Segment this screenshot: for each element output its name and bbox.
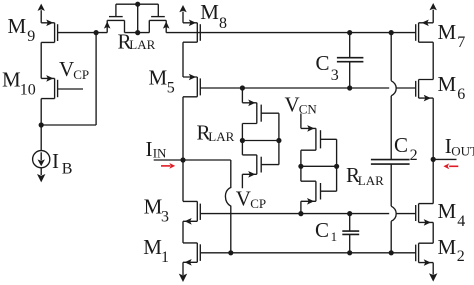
svg-text:B: B <box>62 161 73 178</box>
label C2 <box>394 133 418 164</box>
svg-text:C: C <box>316 51 330 75</box>
transistor M7 (PMOS, mirrored) <box>416 20 434 43</box>
pseudo-resistor RLAR mid-right, lower transistor <box>301 166 337 213</box>
label RLAR (top) <box>118 30 156 54</box>
pseudo-resistor RLAR top, right transistor <box>149 4 169 32</box>
node IIN line on row D <box>228 250 233 255</box>
capacitor C3 <box>337 33 364 88</box>
label VCP (gate of M10) <box>59 57 89 82</box>
capacitor C2 <box>371 33 410 253</box>
svg-text:C: C <box>315 218 329 242</box>
svg-text:9: 9 <box>27 28 35 45</box>
svg-text:M: M <box>438 199 457 223</box>
svg-text:OUT: OUT <box>451 143 474 158</box>
svg-text:M: M <box>8 14 27 38</box>
label M9 <box>8 14 36 45</box>
power arrow (VDD) for M9 <box>38 4 45 23</box>
node: M9 gate / RLAR left <box>94 30 99 35</box>
wire gate bus row C (M3 gate to M4 gate) <box>200 213 415 215</box>
svg-text:LAR: LAR <box>129 37 155 52</box>
svg-text:V: V <box>59 57 74 81</box>
label C1 <box>315 218 337 244</box>
node RLAR mid-left center right <box>276 138 281 143</box>
svg-text:I: I <box>52 149 59 173</box>
node C2 bottom on row D <box>389 250 394 255</box>
wire feedback node to M9 gate node <box>41 33 96 125</box>
label M7 <box>438 20 466 51</box>
wire RLAR mid-left center link <box>242 140 279 142</box>
svg-text:M: M <box>200 0 219 24</box>
transistor M10 (PMOS) <box>41 75 83 99</box>
wire hop of C2 line over row C <box>391 206 396 221</box>
node RLAR mid-right center right <box>334 164 339 169</box>
svg-text:M: M <box>438 72 457 96</box>
label RLAR (mid-left) <box>197 120 235 144</box>
wire gate bus row D (M1 gate to M2 gate) <box>200 252 415 254</box>
wire gate bus row B (M5 gate to M6 gate) <box>200 87 415 89</box>
transistor M3 (NMOS) <box>183 160 200 225</box>
node RLAR gate rail center <box>135 2 140 7</box>
wire top RLAR gate rail <box>116 4 158 32</box>
pseudo-resistor RLAR mid-left, upper transistor <box>242 88 279 141</box>
wire hop of C2 line over row B <box>391 81 396 96</box>
node M5 gate / RLAR left-mid top <box>240 85 245 90</box>
svg-text:1: 1 <box>331 229 338 244</box>
transistor M9 (PMOS) <box>41 20 96 43</box>
label M8 <box>200 0 227 32</box>
wire M6 source to IOUT node <box>432 98 434 159</box>
svg-text:2: 2 <box>410 147 418 164</box>
svg-text:M: M <box>2 68 21 92</box>
label M3 <box>144 195 169 226</box>
wire M8 drain to M5 source <box>182 42 184 77</box>
wire IOUT node to M4 drain <box>432 159 434 203</box>
svg-text:2: 2 <box>457 248 465 265</box>
wire M9 drain to M10 source <box>40 42 42 78</box>
label M5 <box>149 66 175 97</box>
svg-text:1: 1 <box>161 249 169 266</box>
svg-text:I: I <box>146 137 153 161</box>
label M10 <box>2 68 36 99</box>
svg-text:C: C <box>394 133 408 157</box>
wire IIN node down to M1/M2 gate bus (with jog) <box>225 160 230 253</box>
node C1 top on row C <box>347 211 352 216</box>
label M2 <box>438 235 465 265</box>
node C3 bottom on row B <box>347 85 352 90</box>
node IIN <box>180 157 185 162</box>
label M4 <box>438 199 466 230</box>
svg-text:7: 7 <box>457 34 465 51</box>
current source IB <box>33 125 50 182</box>
label M6 <box>438 72 466 103</box>
output terminal wire IOUT <box>433 158 456 160</box>
svg-text:3: 3 <box>161 209 169 226</box>
svg-text:M: M <box>149 66 168 90</box>
wire M7 drain to M6 drain <box>432 42 434 79</box>
transistor M6 (NMOS, mirrored) <box>416 80 434 102</box>
node RLAR mid-right center left <box>298 164 303 169</box>
wire M3 source to M1 drain <box>182 221 184 243</box>
label VCP (mid) <box>236 186 266 211</box>
svg-text:V: V <box>285 92 300 116</box>
svg-text:6: 6 <box>457 86 465 103</box>
transistor M2 (NMOS, mirrored) <box>416 243 434 266</box>
ground arrow below M1 <box>179 262 187 282</box>
wire M4 source to M2 drain <box>432 222 434 243</box>
svg-text:10: 10 <box>20 82 36 99</box>
label M1 <box>143 235 169 266</box>
node RLAR center tap <box>135 30 140 35</box>
node C1 bottom on row D <box>347 250 352 255</box>
label IOUT <box>445 134 474 158</box>
svg-text:8: 8 <box>219 15 227 32</box>
wire M5 drain to IIN node <box>182 97 184 160</box>
pseudo-resistor RLAR top, left transistor <box>104 4 125 32</box>
svg-text:M: M <box>438 20 457 44</box>
wire gate bus row A (M9 gate to M7 gate) <box>96 32 416 34</box>
svg-text:LAR: LAR <box>208 129 234 144</box>
pseudo-resistor RLAR mid-right, upper transistor <box>301 114 337 167</box>
svg-text:CP: CP <box>73 67 89 82</box>
svg-text:M: M <box>438 235 457 259</box>
label RLAR (mid-right) <box>346 163 384 188</box>
red input current arrow <box>161 163 175 169</box>
label C3 <box>316 51 339 84</box>
svg-text:5: 5 <box>167 80 175 97</box>
node RLAR mid-right bottom on row C <box>298 211 303 216</box>
svg-text:IN: IN <box>153 145 167 160</box>
ground arrow below M2 <box>429 263 437 282</box>
node IOUT <box>431 157 436 162</box>
wire M10 drain to IB node <box>40 99 42 125</box>
svg-text:3: 3 <box>331 67 339 84</box>
node: M10 drain / IB junction <box>39 122 44 127</box>
svg-text:V: V <box>236 186 251 210</box>
transistor M8 (PMOS) <box>183 20 200 43</box>
red output current arrow <box>443 163 458 169</box>
label VCN <box>285 92 318 116</box>
svg-text:LAR: LAR <box>358 173 384 188</box>
node C2 line on row A <box>389 30 394 35</box>
label IB <box>52 149 72 178</box>
transistor M1 (NMOS) <box>183 243 200 266</box>
svg-text:CP: CP <box>250 196 266 211</box>
svg-text:M: M <box>144 195 163 219</box>
power arrow (VDD) for M8 <box>179 5 186 23</box>
input terminal wire IIN <box>154 159 231 161</box>
svg-text:M: M <box>143 235 162 259</box>
power arrow (VDD) for M7 <box>430 3 437 23</box>
transistor M5 (PMOS) <box>183 74 200 97</box>
transistor M4 (NMOS, mirrored) <box>416 204 434 226</box>
capacitor C1 <box>342 214 359 253</box>
pseudo-resistor RLAR mid-left, lower transistor <box>242 141 279 189</box>
node RLAR mid-left center left <box>240 138 245 143</box>
wire RLAR mid-right center link <box>301 165 337 167</box>
node C3 top on row A <box>347 30 352 35</box>
label IIN <box>146 137 168 161</box>
svg-text:4: 4 <box>457 213 465 230</box>
